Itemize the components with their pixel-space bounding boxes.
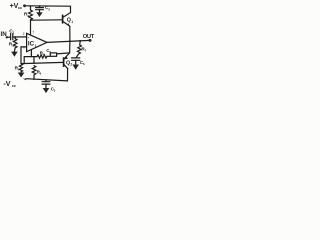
wire Q2 collector down — [67, 68, 69, 81]
op-amp U1 triangle — [27, 33, 47, 51]
wire IN to C1 — [7, 36, 11, 38]
node junction — [33, 62, 35, 64]
capacitor C6 — [72, 57, 80, 59]
svg-text:OUT: OUT — [83, 34, 95, 40]
label +Vcc — [1, 3, 95, 93]
transistor Q2 — [63, 58, 65, 66]
capacitor C2 — [39, 6, 41, 8]
wire non-inverting input stub — [21, 46, 27, 48]
svg-text:IC: IC — [28, 41, 35, 48]
svg-text:2: 2 — [70, 63, 72, 67]
resistor R4 — [37, 55, 47, 58]
resistor R3 — [29, 10, 33, 20]
svg-text:1: 1 — [71, 20, 73, 24]
wire base of Q1 — [31, 19, 63, 21]
ground arrow under C2 — [36, 12, 42, 17]
transistor Q1 — [62, 15, 64, 23]
svg-text:IN: IN — [1, 31, 8, 38]
node OUT terminal dot — [89, 39, 92, 42]
wire +Vcc top rail — [25, 6, 71, 13]
node junction rail/C2 — [39, 5, 41, 7]
svg-text:2: 2 — [23, 32, 25, 36]
node junction R1 — [14, 36, 16, 38]
wire V+ pin to op-amp top — [30, 20, 32, 35]
wire -Vee bottom rail — [26, 79, 68, 81]
resistor R7 zobel — [79, 41, 82, 45]
svg-text:cc: cc — [12, 84, 16, 88]
wire feedback line to Q2 base — [21, 62, 63, 63]
ground arrow under C3 — [43, 88, 50, 93]
svg-text:-V: -V — [3, 81, 10, 88]
svg-text:+: + — [23, 45, 26, 50]
capacitor C5 (electrolytic box) — [50, 53, 56, 56]
svg-text:cc: cc — [18, 6, 22, 10]
ground arrow under R5 — [18, 73, 25, 78]
wire V+ pin branch — [30, 6, 32, 10]
node junction emitters — [69, 40, 71, 42]
resistor R5 — [19, 64, 22, 72]
wire V- pin branch — [30, 50, 32, 57]
node -Vee arrow terminal — [23, 79, 27, 81]
node junction zobel — [79, 40, 81, 42]
node input IN terminal dot — [6, 36, 8, 38]
capacitor C3 — [45, 80, 47, 82]
ground arrow under C6 — [72, 65, 79, 70]
resistor R1 — [14, 37, 16, 39]
wire feedback box left — [24, 57, 37, 64]
capacitor C1 — [10, 34, 12, 40]
wire down branch — [33, 57, 35, 64]
resistor R6 — [32, 66, 36, 75]
svg-text:1: 1 — [35, 44, 37, 48]
svg-text:7: 7 — [32, 30, 34, 34]
wire Q1 emitter down — [69, 26, 71, 41]
wire Q2 emitter up to out — [69, 41, 71, 53]
node +Vcc terminal dot — [23, 4, 26, 7]
wire + input bias down — [20, 47, 22, 64]
ground arrow under R1 — [11, 52, 18, 57]
wire C1 to op-amp inverting input — [13, 36, 27, 38]
node junction R6 bottom — [33, 78, 35, 80]
wire output line — [47, 40, 90, 42]
